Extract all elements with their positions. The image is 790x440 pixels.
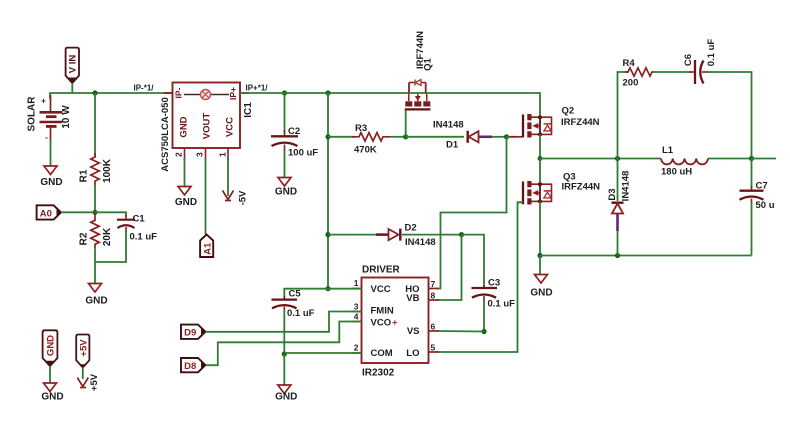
svg-text:D9: D9 (184, 328, 196, 339)
svg-text:+: + (392, 318, 398, 329)
ground below Q3 (530, 275, 552, 299)
node junction Q1 gate (403, 134, 408, 139)
diode D1 IN4148 (406, 120, 507, 151)
net label IP+ (246, 84, 269, 93)
wire VB net: node to C3 top (462, 235, 485, 287)
driver pin 3 FMIN (352, 302, 362, 312)
svg-text:-5V: -5V (238, 190, 249, 205)
IC1 pin 1 (218, 148, 229, 160)
svg-text:L1: L1 (662, 145, 674, 156)
wire +5V stem (82, 367, 84, 379)
ground below R2 (85, 284, 107, 307)
svg-text:IN4148: IN4148 (405, 237, 436, 248)
wire output stub (752, 158, 777, 160)
node junction VS/C3 (481, 329, 486, 334)
capacitor C2 (271, 93, 318, 159)
wire battery to ground (50, 140, 52, 166)
svg-text:2: 2 (174, 152, 184, 157)
svg-text:R4: R4 (623, 58, 636, 69)
wire R4 branch up (618, 72, 629, 159)
svg-text:C1: C1 (133, 214, 146, 225)
diode D2 IN4148 (328, 223, 462, 249)
svg-text:180 uH: 180 uH (661, 167, 692, 178)
svg-text:50 u: 50 u (756, 200, 775, 211)
diode D3 IN4148 (607, 159, 632, 256)
IC1 pin IP+ stub (240, 92, 249, 94)
node junction switch node at Q2/Q3 (538, 156, 543, 161)
wire C6 to output corner (706, 72, 752, 159)
svg-text:100K: 100K (102, 158, 113, 183)
node junction output (749, 156, 754, 161)
capacitor C3 (472, 278, 516, 310)
svg-text:Q2: Q2 (562, 106, 575, 117)
svg-text:6: 6 (431, 322, 436, 332)
svg-text:2: 2 (354, 343, 359, 353)
capacitor C6 (683, 39, 717, 84)
port flag A0 (37, 205, 61, 219)
transistor Q1 IRF744N (405, 31, 434, 110)
ground below C5 (275, 385, 297, 403)
net label IP- (134, 84, 155, 93)
wire node to C1 (95, 212, 126, 217)
svg-text:IRFZ44N: IRFZ44N (562, 182, 601, 193)
svg-text:0.1 uF: 0.1 uF (706, 39, 717, 67)
node junction at VCC column top (325, 90, 330, 95)
inductor L1 (661, 145, 708, 178)
svg-text:COM: COM (371, 348, 393, 359)
wire ground stub below Q3 (539, 256, 541, 275)
wire V IN stem (71, 83, 73, 93)
wire LO net pin5 right and up to Q3 gate (437, 202, 523, 352)
svg-text:R3: R3 (355, 123, 367, 134)
battery SOLAR (27, 95, 73, 142)
svg-text:VCO: VCO (371, 318, 392, 329)
svg-text:IN4148: IN4148 (433, 120, 464, 131)
driver pin 1 VCC (352, 278, 362, 289)
svg-text:R2: R2 (79, 232, 90, 245)
wire R1 column (94, 93, 96, 157)
wire IC1 pin2 to ground (184, 158, 186, 186)
IC1 pin 3 (195, 148, 206, 160)
svg-text:3: 3 (354, 302, 359, 312)
wire Q1 gate down (405, 110, 407, 136)
svg-text:IP-: IP- (174, 87, 184, 98)
ground below IC1 pin2 (175, 187, 197, 209)
wire Q2 source to switch node (539, 134, 541, 158)
supply flag GND bottom-left (43, 330, 58, 366)
node junction A0/R2/C1 (92, 210, 97, 215)
svg-text:C2: C2 (288, 126, 300, 137)
driver pin 5 LO (429, 343, 439, 353)
svg-text:+: + (41, 97, 46, 106)
svg-text:GND: GND (275, 187, 297, 198)
svg-text:C6: C6 (683, 54, 694, 66)
capacitor C7 (740, 159, 775, 256)
svg-text:IP+: IP+ (228, 87, 238, 100)
svg-text:4: 4 (354, 312, 359, 322)
wire VCC column x=328 (327, 93, 329, 289)
svg-text:GND: GND (46, 335, 57, 356)
supply symbol +5V arrow (77, 373, 100, 391)
svg-text:GND: GND (175, 197, 197, 208)
wire R3 to D1 node (390, 136, 406, 138)
svg-text:10 W: 10 W (61, 105, 72, 129)
wire HO net: node down, left, down to pin 7 (437, 137, 507, 289)
svg-text:1: 1 (354, 278, 359, 288)
wire top rail IC1 to Q2 drain corner (240, 93, 540, 117)
svg-text:GND: GND (40, 177, 62, 188)
svg-text:A0: A0 (40, 208, 52, 219)
svg-text:GND: GND (179, 116, 190, 137)
node junction R3 tee (325, 134, 330, 139)
wire GND flag stem (49, 366, 51, 383)
wire C3 bottom to VS node (483, 300, 485, 332)
ground below C2 (275, 178, 297, 198)
supply symbol -5V (223, 190, 249, 205)
svg-text:IR2302: IR2302 (362, 368, 395, 379)
wire A0 to node (61, 211, 95, 213)
svg-text:GND: GND (275, 392, 297, 403)
svg-text:20K: 20K (102, 227, 113, 246)
transistor Q2 IRFZ44N (507, 106, 600, 138)
svg-text:D3: D3 (607, 188, 618, 200)
wire R3 left (328, 136, 355, 138)
port flag D8 (181, 358, 206, 372)
resistor R4 (623, 58, 656, 89)
svg-text:GND: GND (41, 392, 63, 403)
svg-text:LO: LO (406, 348, 419, 359)
capacitor C1 (117, 214, 157, 243)
node junction VB net (459, 232, 464, 237)
svg-text:200: 200 (623, 78, 639, 89)
IC1 pin IP- stub (164, 92, 173, 94)
node junction at C2 top (282, 90, 287, 95)
svg-text:+5V: +5V (89, 373, 100, 391)
svg-text:0.1 uF: 0.1 uF (130, 232, 158, 243)
wire IC1 pin1 to -5V (227, 158, 229, 196)
wire COM node to pin 2 (284, 352, 361, 354)
wire R2 bottom to ground (94, 248, 96, 283)
wire R4 to C6 (653, 71, 691, 73)
node junction Q2 gate / HO net (504, 134, 509, 139)
svg-text:-: - (45, 133, 48, 142)
wire VB net: node down to pin 8 (437, 235, 462, 300)
svg-text:IC1: IC1 (243, 102, 254, 118)
wire VS pin 6 to node (437, 330, 484, 333)
node junction R4/D3 tee (615, 156, 620, 161)
svg-text:VB: VB (406, 293, 419, 304)
svg-text:0.1 uF: 0.1 uF (287, 308, 315, 319)
svg-text:100 uF: 100 uF (288, 148, 318, 159)
svg-text:IP+*1/: IP+*1/ (246, 84, 269, 93)
IC driver IR2302 box (362, 265, 429, 379)
svg-text:0.1 uF: 0.1 uF (488, 299, 516, 310)
wire IC1 pin3 to A1 (205, 158, 207, 235)
svg-text:R1: R1 (79, 169, 90, 182)
capacitor C5 (272, 289, 315, 320)
resistor R3 (352, 123, 390, 156)
svg-text:470K: 470K (354, 145, 377, 156)
wire VCC to C5 (284, 289, 328, 299)
wire C5 bottom to COM node (283, 310, 285, 354)
driver pin 4 VCO (352, 312, 362, 322)
wire switch node rail (540, 158, 661, 160)
svg-text:VCC: VCC (225, 117, 236, 137)
node junction VCC/C5 tee (325, 286, 330, 291)
svg-text:C3: C3 (488, 278, 500, 289)
svg-text:DRIVER: DRIVER (362, 265, 401, 276)
svg-text:+5V: +5V (79, 339, 90, 357)
port flag A1 (200, 235, 213, 258)
node junction D2 tee (325, 232, 330, 237)
svg-text:5: 5 (431, 343, 436, 353)
svg-text:IRFZ44N: IRFZ44N (561, 117, 600, 128)
wire VCC net from column to pin 1 (328, 288, 362, 290)
driver pin 7 HO (429, 279, 439, 289)
driver pin 2 COM (352, 343, 362, 354)
resistor R2 (79, 212, 114, 248)
svg-text:3: 3 (195, 152, 205, 157)
ground below battery (40, 166, 62, 188)
transistor Q3 IRFZ44N (518, 159, 601, 205)
port flag D9 (181, 325, 206, 339)
node junction bottom rail at Q3 (537, 253, 542, 258)
svg-text:Q1: Q1 (423, 57, 434, 70)
svg-text:VOUT: VOUT (202, 113, 213, 140)
svg-text:ACS750LCA-050: ACS750LCA-050 (160, 97, 171, 171)
svg-text:8: 8 (431, 291, 436, 301)
wire Q3 source to bottom rail (539, 201, 541, 255)
svg-text:C5: C5 (289, 289, 302, 300)
IC1 pin 2 (174, 148, 185, 160)
svg-text:FMIN: FMIN (371, 306, 394, 317)
wire C1 bottom to R2 bottom (95, 230, 126, 262)
wire R1 to node (94, 185, 96, 212)
svg-text:D8: D8 (184, 361, 196, 372)
wire C2 to ground (284, 150, 286, 177)
svg-text:D1: D1 (446, 140, 459, 151)
supply flag V IN (66, 48, 79, 83)
wire top rail from battery to IC1 (50, 93, 173, 99)
driver pin 6 VS (429, 322, 439, 332)
resistor R1 (79, 153, 114, 185)
svg-text:A1: A1 (202, 242, 213, 255)
node junction COM/C5/GND (282, 351, 287, 356)
wire bottom rail (540, 255, 752, 257)
driver pin 8 VB (429, 291, 439, 301)
wire D8 to pin 4 (206, 322, 362, 366)
svg-text:SOLAR: SOLAR (27, 96, 38, 132)
svg-text:C7: C7 (756, 181, 768, 192)
wire L1 to output node (708, 158, 752, 160)
svg-text:VCC: VCC (371, 284, 391, 295)
svg-text:V IN: V IN (68, 55, 79, 74)
svg-text:IN4148: IN4148 (621, 171, 632, 202)
svg-text:VS: VS (407, 326, 420, 337)
wire D9 to pin 3 (206, 312, 362, 332)
svg-text:GND: GND (530, 288, 552, 299)
node junction D3 bottom (615, 253, 620, 258)
wire COM node to ground (283, 354, 285, 385)
IC U1 ACS750LCA-050 box (160, 83, 254, 172)
supply flag +5V bottom-left (76, 335, 89, 369)
node junction at R1 top (92, 90, 97, 95)
svg-text:D2: D2 (405, 223, 417, 234)
svg-text:GND: GND (85, 296, 107, 307)
svg-text:IP-*1/: IP-*1/ (134, 84, 155, 93)
svg-text:1: 1 (218, 152, 228, 157)
svg-text:7: 7 (431, 279, 436, 289)
ground below GND flag (41, 383, 63, 403)
